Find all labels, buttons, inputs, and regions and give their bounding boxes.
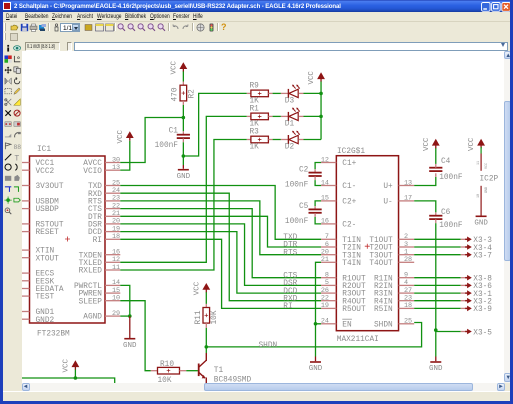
IC1 pin RTS stub — [104, 199, 119, 201]
svg-text:R3: R3 — [249, 128, 259, 136]
IC2 pin name T1IN — [342, 236, 361, 244]
IC1 pin name RXLED — [78, 267, 102, 275]
IC1 pin number 10 — [111, 294, 119, 302]
svg-text:GND: GND — [474, 219, 488, 227]
toolbar — [3, 22, 510, 33]
wire net CTS — [120, 208, 321, 277]
schematic canvas — [22, 51, 505, 384]
svg-text:VCC: VCC — [193, 281, 201, 295]
IC1 pin TXDEN stub — [104, 253, 119, 255]
svg-text:25: 25 — [403, 317, 411, 325]
svg-text:EN: EN — [342, 321, 352, 329]
capacitor C1 — [176, 131, 189, 142]
svg-text:U+: U+ — [383, 183, 393, 191]
power VCC symbol (C4) — [422, 137, 439, 151]
IC2 pin R5OUT stub — [320, 307, 335, 309]
IC2 pin name T4IN — [342, 259, 361, 267]
svg-text:SLEEP: SLEEP — [78, 298, 102, 306]
svg-text:R9: R9 — [249, 82, 259, 90]
IC2 pin name T1OUT — [369, 236, 393, 244]
svg-text:R10: R10 — [159, 361, 173, 369]
IC2 pin number 22 — [320, 294, 328, 302]
IC IC2G$1 MAX211CAI symbol box — [336, 155, 398, 330]
svg-text:R2: R2 — [188, 88, 196, 98]
IC2 pin T2IN stub — [320, 245, 335, 247]
connector pin X3-6 — [460, 282, 471, 288]
svg-text:T4OUT: T4OUT — [369, 259, 393, 267]
IC2 pin number 28 — [403, 256, 411, 264]
IC1 pin number 24 — [111, 186, 119, 194]
IC2 pin number 26 — [320, 286, 328, 294]
IC1 pin name RSTOUT — [35, 221, 63, 229]
svg-text:GND: GND — [176, 172, 190, 180]
IC2P VCC pin 11 — [477, 147, 489, 171]
svg-text:1K: 1K — [249, 143, 259, 151]
IC1 pin number 29 — [111, 309, 119, 317]
junction node SHDN-T1 — [204, 345, 208, 349]
net label RI — [283, 303, 292, 311]
capacitor C4 — [429, 163, 442, 176]
IC2 pin number 5 — [324, 279, 328, 287]
svg-text:14: 14 — [320, 179, 328, 187]
IC1 pin number 12 — [111, 256, 119, 264]
wire C1+ to C2 — [315, 162, 321, 169]
svg-text:C1-: C1- — [342, 183, 356, 191]
svg-text:100nF: 100nF — [154, 142, 178, 150]
wire node AVCC to C1 — [182, 117, 184, 131]
IC1 pin XTIN stub — [22, 249, 29, 251]
ground symbol (AGND) — [123, 338, 137, 349]
IC1 pin name DTR — [87, 213, 101, 221]
C1 value 100nF — [154, 142, 178, 150]
svg-text:X3-7: X3-7 — [473, 252, 492, 260]
IC1 pin name VCC1 — [35, 160, 54, 168]
wire R10 to T1 base — [186, 369, 198, 371]
svg-text:1K: 1K — [249, 97, 259, 105]
wire net TXD — [120, 185, 321, 239]
wire C1 to node GND1 — [182, 142, 184, 156]
svg-text:470: 470 — [171, 87, 179, 101]
IC1 pin name USBDM — [35, 198, 59, 206]
IC2 pin R3IN stub — [398, 292, 414, 294]
IC2 pin name R2IN — [374, 282, 393, 290]
wire SLEEP to R10 — [120, 300, 150, 370]
wire D3 to VCC rail — [303, 92, 321, 94]
svg-text:BC849SMD: BC849SMD — [213, 376, 251, 384]
svg-text:28: 28 — [403, 256, 411, 264]
wire net RXD — [120, 193, 321, 300]
svg-text:10: 10 — [111, 294, 119, 302]
R2 name label — [188, 88, 196, 98]
IC1 pin VCC1 stub — [22, 161, 29, 163]
svg-text:VCC: VCC — [308, 70, 316, 84]
svg-text:AGND: AGND — [83, 313, 102, 321]
R10 value 10K — [157, 376, 171, 384]
svg-text:11: 11 — [477, 160, 481, 164]
svg-text:VCC2: VCC2 — [35, 167, 54, 175]
svg-text:SHDN: SHDN — [258, 341, 277, 349]
C1 name label — [168, 127, 178, 135]
IC1 pin DCD stub — [104, 230, 119, 232]
IC2 pin T1IN stub — [320, 238, 335, 240]
IC1 pin name PWREN — [78, 290, 102, 298]
wire VCC to VCIO pin 13 — [120, 140, 129, 169]
IC1 pin name USBDP — [35, 206, 59, 214]
IC1 pin number 18 — [111, 233, 119, 241]
wire VCC to R11 — [205, 292, 207, 304]
C4 name label — [440, 157, 450, 165]
svg-text:GND: GND — [123, 341, 137, 349]
svg-text:VCIO: VCIO — [83, 167, 102, 175]
IC2 pin number 7 — [324, 233, 328, 241]
IC1 pin number 20 — [111, 217, 119, 225]
svg-text:XTOUT: XTOUT — [35, 255, 59, 263]
IC1 pin TXD stub — [104, 184, 119, 186]
wire U- pin 17 to C6 — [414, 200, 436, 211]
net label TXD — [283, 233, 297, 241]
svg-text:C2-: C2- — [342, 221, 356, 229]
IC2 pin number 19 — [320, 302, 328, 310]
junction EN node — [313, 321, 317, 325]
wire to X3-5 — [435, 330, 460, 332]
wire R1 to TXLED pin 12 — [120, 116, 246, 262]
R3 value 1K — [249, 143, 259, 151]
IC1 pin RXLED stub — [104, 268, 119, 270]
IC2 pin T4OUT stub — [398, 261, 414, 263]
IC1 pin number 30 — [111, 156, 119, 164]
IC2 pin name R1IN — [374, 275, 393, 283]
svg-text:3V3OUT: 3V3OUT — [35, 183, 63, 191]
svg-text:10: 10 — [477, 193, 481, 197]
connector pin X3-7 — [460, 251, 471, 257]
IC1 pin XTOUT stub — [22, 256, 29, 258]
svg-text:17: 17 — [403, 194, 411, 202]
C5 value 100nF — [284, 218, 308, 226]
IC2 pin number 21 — [320, 256, 328, 264]
wire net DCD — [120, 231, 321, 292]
coordinate bar — [3, 42, 510, 52]
IC2P name label — [479, 175, 498, 183]
C2 value 100nF — [284, 181, 308, 189]
IC1 pin name RESET — [35, 229, 59, 237]
LED D3 — [280, 84, 303, 97]
svg-text:D3: D3 — [284, 97, 294, 105]
LED D2 — [280, 130, 303, 143]
svg-text:IC2G$1: IC2G$1 — [336, 147, 364, 155]
X3-9 label — [473, 306, 492, 314]
connector pin X3-3 — [460, 236, 471, 242]
IC2 pin number 25 — [403, 317, 411, 325]
IC2 pin name EN with overline — [342, 319, 352, 329]
svg-text:19: 19 — [320, 302, 328, 310]
resistor R11 — [202, 303, 209, 327]
wire R3 to RXLED pin 11 — [120, 139, 246, 269]
IC2 pin R3OUT stub — [320, 292, 335, 294]
connector pin X3-5 — [460, 328, 471, 334]
svg-text:GND: GND — [308, 365, 322, 373]
wire net SHDN — [206, 322, 421, 346]
IC2 pin name T3OUT — [369, 252, 393, 260]
svg-text:GND: GND — [429, 365, 443, 373]
T1 value BC849SMD — [213, 376, 251, 384]
svg-text:R11: R11 — [194, 310, 202, 324]
IC1 pin DTR stub — [104, 215, 119, 217]
wire R2 to node AVCC — [182, 105, 184, 117]
IC2 pin C1+ stub — [320, 161, 335, 163]
connector pin X3-8 — [460, 274, 471, 280]
IC2 pin number 14 — [320, 179, 328, 187]
wire C5 to C2- pin 16 — [315, 216, 321, 223]
net label SHDN — [258, 341, 277, 349]
IC2 pin number 6 — [324, 240, 328, 248]
svg-text:RTS: RTS — [283, 249, 297, 257]
capacitor C5 — [308, 206, 321, 217]
R1 value 1K — [249, 120, 259, 128]
svg-text:X3-5: X3-5 — [473, 329, 492, 337]
svg-text:C2: C2 — [298, 166, 308, 174]
IC2 pin T2OUT stub — [398, 245, 414, 247]
wire AGND node to GND — [128, 316, 130, 338]
IC1 pin name VCIO — [83, 167, 102, 175]
R10 name label — [159, 361, 173, 369]
IC1 pin AVCC stub — [104, 161, 119, 163]
IC1 pin name 3V3OUT — [35, 183, 63, 191]
wire VCC rail for LEDs — [320, 81, 322, 139]
D1 name label — [284, 120, 294, 128]
resistor R2 — [180, 81, 187, 104]
wire to X3-6 — [414, 284, 460, 286]
IC2 pin R4OUT stub — [320, 299, 335, 301]
svg-text:C1: C1 — [168, 127, 178, 135]
ground symbol (EN) — [308, 361, 322, 372]
IC2 pin number 4 — [403, 279, 407, 287]
vertical scrollbar — [504, 51, 511, 384]
svg-text:FT232BM: FT232BM — [36, 330, 69, 338]
IC1 pin number 21 — [111, 210, 119, 218]
svg-text:C2+: C2+ — [342, 198, 356, 206]
IC2 pin name U+ — [383, 183, 393, 191]
IC1 pin SLEEP stub — [104, 299, 119, 301]
net label CTS — [283, 272, 297, 280]
svg-text:GND2: GND2 — [35, 316, 54, 324]
wire to X3-7 — [414, 253, 460, 255]
IC2 pin name SHDN — [374, 321, 393, 329]
power VCC symbol (IC2P) — [468, 137, 485, 151]
ground symbol (C1) — [176, 169, 190, 180]
power VCC symbol (LED rail) — [308, 70, 325, 84]
wire VCC rail bottom — [22, 377, 115, 383]
IC2 pin number 24 — [320, 317, 328, 325]
IC1 pin USBDP stub — [22, 207, 29, 209]
IC2 pin number 3 — [403, 240, 407, 248]
IC1 pin RESET stub — [22, 230, 29, 232]
svg-text:C6: C6 — [440, 208, 450, 216]
R11 value 10K — [210, 310, 218, 324]
IC1 pin EEDATA stub — [22, 287, 29, 289]
svg-text:24: 24 — [320, 317, 328, 325]
ground symbol (C6) — [429, 361, 443, 372]
IC2 pin number 13 — [403, 179, 411, 187]
wire node to GND pin — [182, 156, 184, 169]
svg-text:100nF: 100nF — [284, 218, 308, 226]
IC1 pin VCIO stub — [104, 169, 119, 171]
IC1 pin TXLED stub — [104, 261, 119, 263]
power VCC symbol (R2 top) — [170, 60, 187, 74]
IC1 pin GND1 stub — [22, 310, 29, 312]
IC2 pin C1- stub — [320, 184, 335, 186]
wire C2 to C1- pin 14 — [315, 180, 321, 185]
X3-6 label — [473, 283, 492, 291]
IC2 pin R2OUT stub — [320, 284, 335, 286]
IC1 pin name DCD — [87, 229, 101, 237]
svg-text:VCC: VCC — [468, 137, 476, 151]
IC1 pin name EECS — [35, 270, 54, 278]
IC2 pin number 27 — [403, 286, 411, 294]
IC1 pin name TXD — [87, 183, 101, 191]
IC1 pin PWREN stub — [104, 292, 119, 294]
wire net RTS — [120, 200, 321, 254]
title bar — [0, 0, 513, 12]
IC1 pin name GND2 — [35, 316, 54, 324]
resistor R3 — [246, 136, 272, 143]
wire net RI — [120, 239, 321, 308]
svg-text:13: 13 — [111, 163, 119, 171]
svg-text:C5: C5 — [298, 203, 308, 211]
resistor R1 — [246, 113, 272, 120]
IC2 pin T4IN stub — [320, 261, 335, 263]
IC2 pin name C2- — [342, 221, 356, 229]
IC1 pin USBDM stub — [22, 199, 29, 201]
svg-text:USBDP: USBDP — [35, 206, 59, 214]
IC2 pin name R4IN — [374, 298, 393, 306]
svg-text:D1: D1 — [284, 120, 294, 128]
wire R9 to node C1-GND — [183, 93, 246, 156]
IC1 pin name EEDATA — [35, 286, 63, 294]
LED D1 — [280, 107, 303, 120]
wire VCC to R2 — [182, 71, 184, 81]
R9 value 1K — [249, 97, 259, 105]
IC2 pin U+ stub — [398, 184, 414, 186]
svg-text:18: 18 — [403, 302, 411, 310]
IC2 pin number 23 — [403, 294, 411, 302]
IC2 pin number 1 — [403, 248, 407, 256]
svg-text:10K: 10K — [157, 376, 171, 383]
svg-text:RI: RI — [283, 303, 292, 311]
wire to X3-9 — [414, 307, 460, 309]
C6 value 100nF — [439, 222, 463, 230]
X3-1 label — [473, 290, 492, 298]
R11 name label — [194, 310, 202, 324]
wire R3 to D2 — [272, 138, 280, 140]
wire net DSR — [120, 223, 321, 284]
IC2 pin number 8 — [324, 271, 328, 279]
X3-3 label — [473, 237, 492, 245]
wire X3-5 node to GND — [434, 330, 436, 361]
IC2 pin C2- stub — [320, 222, 335, 224]
wire net DTR — [120, 216, 321, 247]
svg-text:16: 16 — [320, 217, 328, 225]
svg-text:VCC: VCC — [170, 60, 178, 74]
svg-text:21: 21 — [320, 256, 328, 264]
wire to X3-2 — [414, 299, 460, 301]
IC1 pin name TXDEN — [78, 252, 102, 260]
svg-text:12: 12 — [320, 156, 328, 164]
IC2 pin name C2+ — [342, 198, 356, 206]
transistor T1 BC849SMD — [198, 352, 206, 383]
IC2 pin C2+ stub — [320, 199, 335, 201]
IC2 pin U- stub — [398, 199, 414, 201]
wire T4IN to EN — [315, 262, 320, 323]
IC2 pin R2IN stub — [398, 284, 414, 286]
X3-8 label — [473, 275, 492, 283]
svg-text:100nF: 100nF — [284, 181, 308, 189]
X3-4 label — [473, 244, 492, 252]
svg-text:TEST: TEST — [35, 293, 54, 301]
T1 name label — [213, 366, 223, 374]
IC2 pin name C1- — [342, 183, 356, 191]
svg-text:1K: 1K — [249, 120, 259, 128]
wire PWRCTL to AGND node — [120, 285, 129, 316]
connector pin X3-9 — [460, 305, 471, 311]
IC2P GND pin 10 — [477, 185, 489, 215]
svg-text:RI: RI — [92, 236, 101, 244]
svg-text:U-: U- — [383, 198, 392, 206]
svg-text:VCC: VCC — [116, 129, 124, 143]
IC2 pin name R3IN — [374, 290, 393, 298]
resistor R10 — [150, 367, 185, 374]
IC1 pin RSTOUT stub — [22, 222, 29, 224]
svg-text:VCC: VCC — [422, 137, 430, 151]
wire D2 to VCC rail — [303, 138, 321, 140]
svg-text:13: 13 — [403, 179, 411, 187]
C4 value 100nF — [439, 173, 463, 181]
IC1 pin number 13 — [111, 163, 119, 171]
IC2 pin number 2 — [403, 233, 407, 241]
junction X3-5 node — [433, 328, 437, 332]
wire D1 to VCC rail — [303, 115, 321, 117]
R2 value 470 — [171, 87, 179, 101]
svg-text:88: 88 — [13, 143, 21, 149]
IC1 pin name VCC2 — [35, 167, 54, 175]
IC1 pin name RI — [92, 236, 101, 244]
IC2 pin name R3OUT — [342, 290, 366, 298]
IC1 pin name AVCC — [83, 160, 102, 168]
wire R9 to D3 — [272, 92, 280, 94]
IC1 pin GND2 stub — [22, 318, 29, 320]
IC1 pin 3V3OUT stub — [22, 184, 29, 186]
svg-text:R1: R1 — [249, 105, 259, 113]
net label DCD — [283, 287, 297, 295]
IC1 pin VCC2 stub — [22, 169, 29, 171]
connector pin X3-2 — [460, 297, 471, 303]
IC1 pin number 11 — [111, 263, 119, 271]
IC2 pin EN stub — [320, 322, 335, 324]
IC2 pin name C1+ — [342, 160, 356, 168]
IC2 pin number 18 — [403, 302, 411, 310]
IC1 pin name RXD — [87, 190, 101, 198]
IC1 pin name AGND — [83, 313, 102, 321]
svg-text:T: T — [14, 154, 19, 161]
wire T1 collector to node SHDN — [205, 346, 207, 352]
IC1 name label — [36, 145, 50, 153]
svg-text:100nF: 100nF — [439, 173, 463, 181]
IC1 pin name RTS — [87, 198, 101, 206]
horizontal scrollbar — [22, 383, 505, 390]
power VCC symbol (VCIO) — [116, 129, 133, 143]
IC1 pin name DSR — [87, 221, 101, 229]
R1 name label — [249, 105, 259, 113]
junction node C1-GND — [181, 154, 185, 158]
